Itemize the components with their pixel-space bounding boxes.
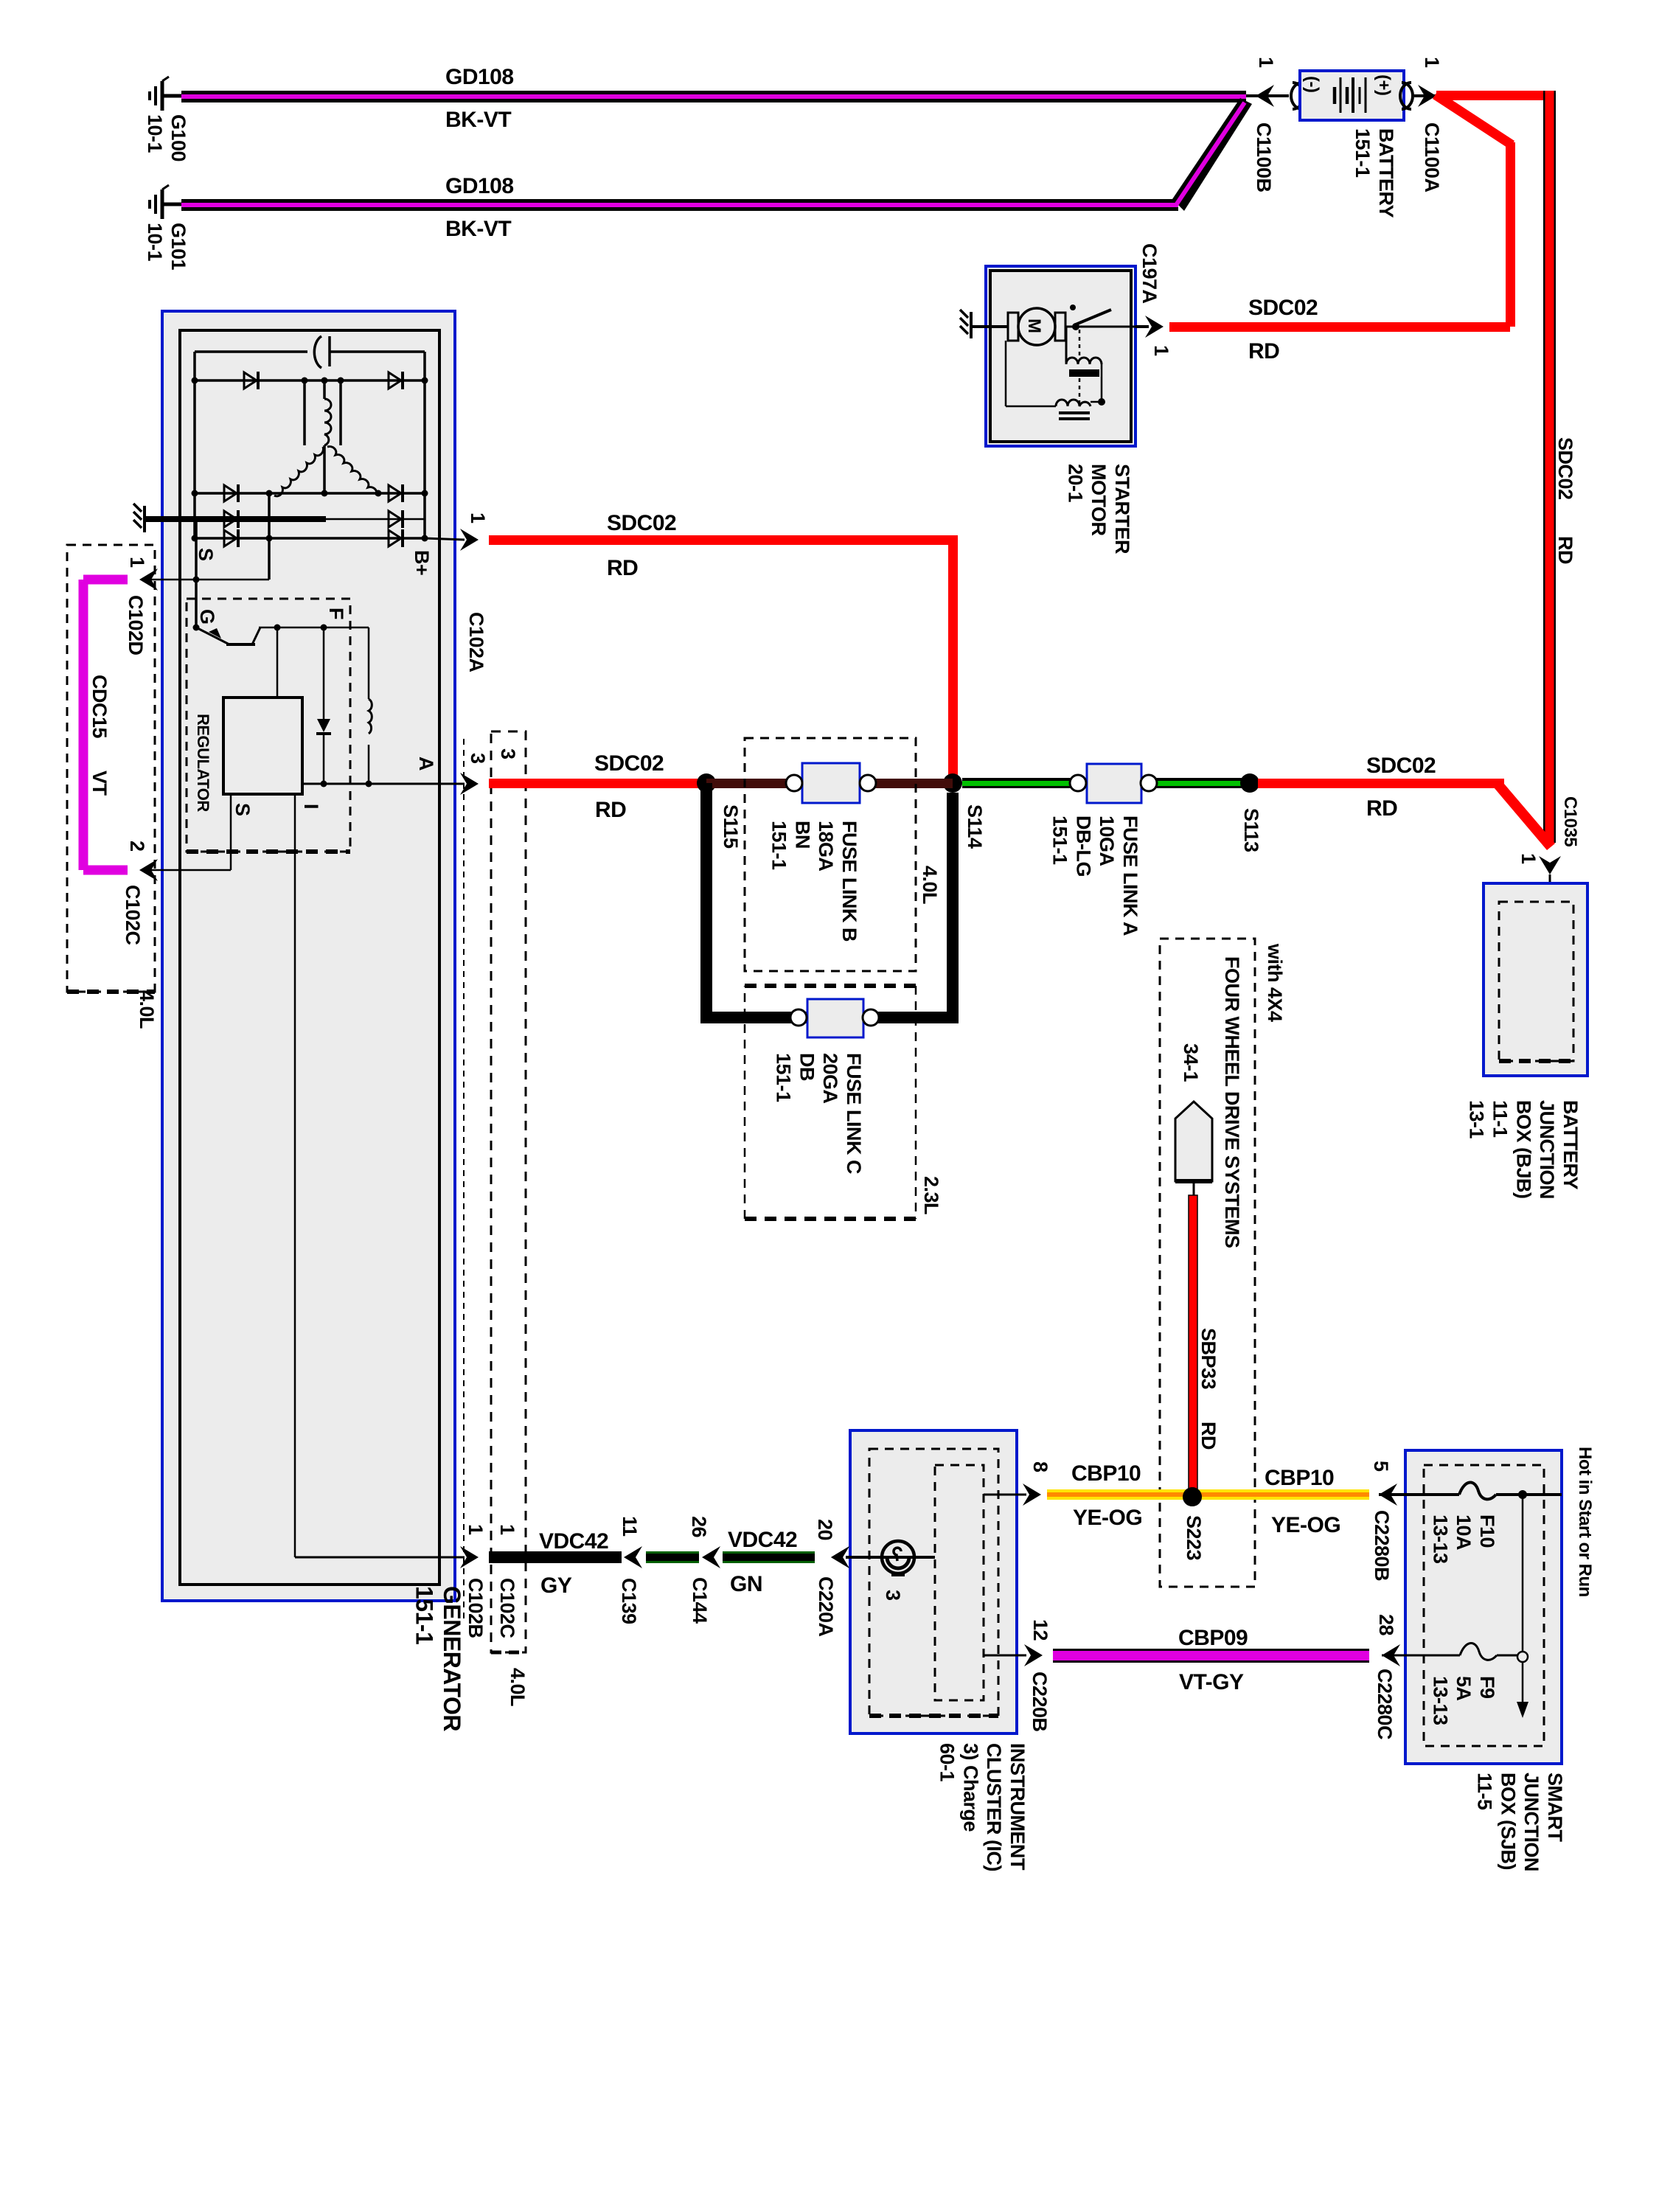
svg-text:S223: S223 [1183,1515,1205,1561]
svg-text:SDC02: SDC02 [594,751,664,776]
svg-text:12: 12 [1029,1619,1051,1641]
svg-text:BK-VT: BK-VT [445,217,511,241]
svg-text:C102A: C102A [465,612,487,672]
svg-text:RD: RD [607,556,638,580]
svg-text:1: 1 [1421,57,1443,68]
svg-text:S113: S113 [1240,808,1262,852]
svg-text:YE-OG: YE-OG [1073,1506,1142,1530]
svg-text:C102C: C102C [122,885,144,945]
svg-text:RD: RD [1366,796,1397,821]
svg-text:5: 5 [1370,1461,1392,1472]
svg-text:FOUR WHEEL DRIVE SYSTEMS: FOUR WHEEL DRIVE SYSTEMS [1221,956,1243,1248]
svg-text:4.0L: 4.0L [919,866,941,904]
svg-text:1: 1 [496,1524,518,1535]
svg-text:GY: GY [540,1573,572,1598]
svg-text:GD108: GD108 [445,65,514,89]
svg-text:VDC42: VDC42 [728,1528,797,1552]
svg-text:CBP10: CBP10 [1071,1461,1141,1486]
svg-text:SDC02: SDC02 [1248,296,1318,320]
svg-text:C102D: C102D [125,595,147,655]
svg-text:CDC15: CDC15 [88,675,111,739]
svg-text:(+): (+) [1374,74,1394,96]
svg-text:26: 26 [688,1516,710,1538]
svg-text:F: F [325,608,347,619]
svg-text:RD: RD [1554,536,1576,564]
svg-text:C197A: C197A [1138,243,1161,304]
svg-text:VDC42: VDC42 [539,1529,608,1554]
svg-text:C220A: C220A [815,1576,837,1637]
svg-text:REGULATOR: REGULATOR [194,714,212,812]
svg-text:SDC02: SDC02 [1366,754,1436,778]
svg-text:3: 3 [467,753,489,764]
svg-text:1: 1 [467,512,489,524]
svg-text:8: 8 [1029,1461,1051,1472]
svg-text:1: 1 [1150,345,1172,356]
svg-text:1: 1 [465,1524,487,1535]
svg-text:(-): (-) [1302,76,1322,92]
svg-text:2.3L: 2.3L [920,1176,942,1214]
svg-text:3: 3 [882,1590,904,1601]
svg-text:VT: VT [88,771,111,796]
svg-text:GD108: GD108 [445,174,514,198]
svg-text:C144: C144 [689,1577,711,1624]
svg-text:SDC02: SDC02 [1554,437,1576,500]
svg-text:A: A [415,757,437,771]
svg-text:G: G [196,609,218,625]
svg-text:C1035: C1035 [1560,796,1580,846]
svg-text:GN: GN [730,1572,762,1596]
svg-text:C139: C139 [618,1578,640,1624]
svg-text:4.0L: 4.0L [507,1668,529,1706]
svg-text:SDC02: SDC02 [607,511,676,535]
svg-text:S115: S115 [720,804,742,849]
svg-text:C2280C: C2280C [1374,1669,1396,1739]
svg-text:SBP33: SBP33 [1197,1328,1220,1390]
svg-text:CBP10: CBP10 [1265,1466,1334,1490]
svg-text:S: S [232,803,254,816]
svg-text:1: 1 [126,557,148,568]
svg-text:3: 3 [497,748,519,759]
svg-text:C102C: C102C [496,1578,518,1638]
svg-text:C1100A: C1100A [1421,122,1443,192]
svg-text:with 4X4: with 4X4 [1264,943,1286,1022]
svg-text:1: 1 [1255,57,1277,68]
svg-text:28: 28 [1375,1614,1397,1636]
svg-text:C2280B: C2280B [1371,1510,1393,1581]
svg-text:2: 2 [126,841,148,852]
svg-text:S: S [195,548,217,561]
svg-text:1: 1 [1517,853,1540,864]
svg-text:VT-GY: VT-GY [1179,1670,1244,1694]
svg-text:RD: RD [1197,1422,1220,1450]
svg-text:4.0L: 4.0L [136,990,158,1029]
svg-text:20: 20 [814,1519,836,1540]
svg-text:34-1: 34-1 [1180,1043,1202,1082]
svg-text:C102B: C102B [465,1578,487,1638]
svg-text:C220B: C220B [1029,1672,1051,1732]
svg-text:Hot in Start or Run: Hot in Start or Run [1575,1447,1595,1597]
svg-text:M: M [1024,319,1044,333]
svg-text:RD: RD [1248,339,1279,364]
svg-text:YE-OG: YE-OG [1271,1513,1340,1537]
svg-text:C1100B: C1100B [1253,122,1275,192]
svg-text:I: I [300,804,322,809]
svg-text:S114: S114 [964,804,986,849]
svg-text:B+: B+ [411,550,433,575]
svg-text:11: 11 [619,1516,641,1537]
svg-text:BK-VT: BK-VT [445,108,511,132]
svg-text:RD: RD [595,798,626,822]
svg-text:CBP09: CBP09 [1178,1626,1248,1650]
